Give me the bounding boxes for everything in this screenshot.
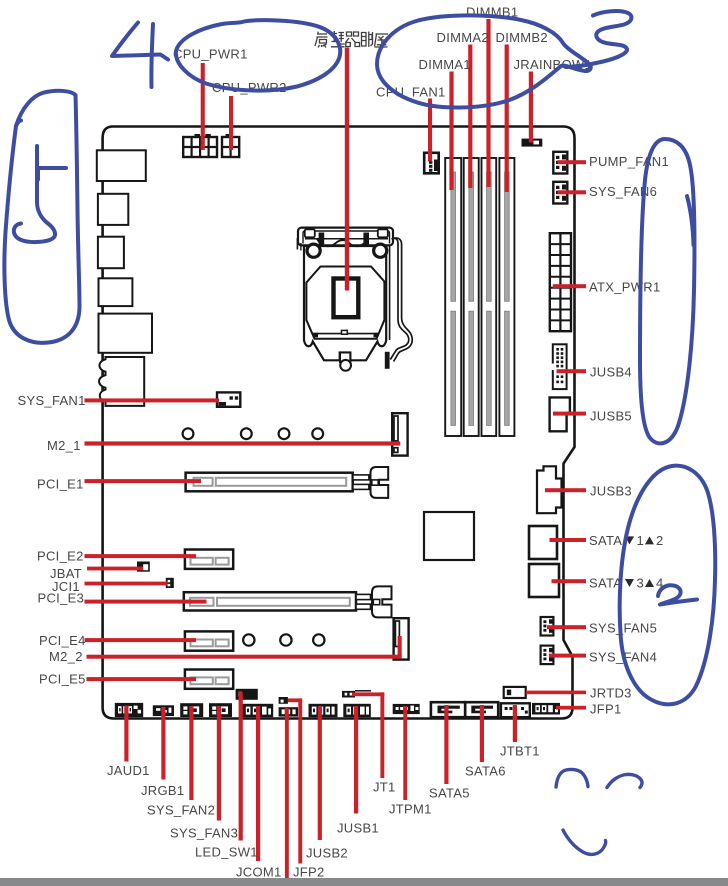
svg-text:SYS_FAN2: SYS_FAN2	[147, 802, 215, 817]
leader line JRAINBOW1	[529, 72, 533, 143]
svg-text:2: 2	[656, 533, 664, 548]
connector ATX_PWR1	[550, 233, 571, 331]
leader line JUSB5	[553, 412, 586, 416]
connector JFP2 tab	[279, 697, 288, 704]
DIMM slot 3	[482, 158, 497, 436]
label PCI_E4	[39, 633, 86, 648]
blue arc eye left	[556, 769, 588, 787]
leader line PCI_E5	[87, 677, 197, 681]
PCI_E3 slot	[184, 592, 356, 610]
svg-text:DIMMA2: DIMMA2	[437, 30, 489, 45]
leader line LED_SW1	[239, 692, 243, 841]
label SYS_FAN4	[589, 649, 657, 664]
leader line JCI1	[85, 582, 168, 586]
label SATA 1 2	[589, 533, 664, 548]
connector JAUD1	[115, 703, 143, 717]
leader line JUSB4	[557, 369, 587, 373]
connector JUSB5	[550, 397, 570, 431]
svg-text:JRGB1: JRGB1	[141, 783, 184, 798]
svg-text:SATA: SATA	[589, 576, 622, 591]
svg-text:JUSB1: JUSB1	[337, 820, 379, 835]
svg-text:SATA6: SATA6	[465, 763, 506, 778]
leader line CPU_PWR2	[229, 96, 233, 150]
blue blob left inner stroke	[14, 146, 55, 242]
leader line PUMP_FAN1	[558, 160, 587, 164]
label JUSB4	[590, 365, 632, 380]
PCI_E2 slot	[185, 550, 233, 569]
svg-text:SYS_FAN1: SYS_FAN1	[18, 393, 86, 408]
DIMM slot 4	[499, 158, 514, 436]
leader line CPU_PWR1	[201, 63, 205, 150]
io port 3	[98, 237, 124, 269]
connector JBAT	[137, 562, 150, 572]
leader line JUSB2	[318, 706, 322, 840]
svg-text:PCI_E5: PCI_E5	[39, 671, 86, 686]
connector SATA6	[465, 702, 498, 717]
svg-text:JAUD1: JAUD1	[107, 763, 150, 778]
connector SYS_FAN3	[209, 703, 232, 717]
label PCI_E1	[37, 476, 84, 491]
svg-text:JFP2: JFP2	[293, 864, 325, 879]
blue tall ellipse right lower	[620, 466, 716, 705]
leader line ATX_PWR1	[553, 284, 586, 288]
leader line PCI_E3	[85, 600, 207, 604]
leader line JAUD1	[124, 706, 128, 762]
label JAUD1	[107, 763, 150, 778]
blue tall ellipse right upper	[640, 139, 695, 443]
label SYS_FAN1	[18, 393, 86, 408]
label SYS_FAN5	[589, 621, 657, 636]
label JRTD3	[590, 686, 632, 701]
blue smile arc	[563, 830, 606, 854]
svg-text:3: 3	[637, 576, 645, 591]
PCI_E5 slot	[185, 670, 233, 689]
io port 1	[97, 150, 146, 181]
label DIMMB1	[466, 5, 518, 20]
svg-text:JRTD3: JRTD3	[590, 686, 632, 701]
label CPU_PWR2	[212, 80, 287, 95]
label SATA 3 4	[589, 576, 664, 591]
PCI_E3 latch	[356, 586, 392, 617]
svg-text:JUSB4: JUSB4	[590, 365, 632, 380]
connector SYS_FAN4	[541, 646, 554, 665]
label SATA6	[465, 763, 506, 778]
io port 4	[99, 278, 133, 306]
svg-text:PCI_E1: PCI_E1	[37, 476, 84, 491]
connector JFP2	[279, 707, 298, 716]
label PUMP_FAN1	[589, 154, 669, 169]
leader line JCOM1	[256, 706, 260, 861]
blue blob left outer	[4, 91, 79, 343]
label JUSB5	[590, 409, 632, 424]
leader line JT1 elbow	[352, 692, 384, 696]
label JRGB1	[141, 783, 184, 798]
mounting holes row 2	[243, 634, 324, 645]
svg-text:JFP1: JFP1	[590, 701, 622, 716]
label CPU socket (CJK)	[315, 31, 388, 48]
leader line JUSB3	[545, 488, 586, 492]
CPU socket screw circles	[307, 244, 387, 257]
connector JRGB1	[153, 705, 174, 716]
leader line M2_1	[85, 441, 401, 445]
connector JUSB2	[309, 704, 338, 717]
label PCI_E5	[39, 671, 86, 686]
leader line JBAT	[87, 567, 143, 571]
svg-text:M2_2: M2_2	[49, 649, 83, 664]
leader line SATA6	[480, 705, 484, 762]
leader line DIMMB1	[486, 19, 490, 187]
svg-text:JUSB5: JUSB5	[590, 409, 632, 424]
connector SYS_FAN2	[180, 703, 203, 717]
svg-text:SYS_FAN6: SYS_FAN6	[589, 184, 657, 199]
label SYS_FAN2	[147, 802, 215, 817]
blue squiggle top right	[572, 11, 631, 66]
io port 5	[99, 314, 153, 353]
svg-text:1: 1	[637, 533, 645, 548]
bottom gray bar	[0, 878, 728, 886]
connector SYS_FAN5	[541, 617, 554, 636]
PCI_E1 slot	[186, 473, 353, 492]
svg-text:PCI_E3: PCI_E3	[38, 591, 85, 606]
CPU socket top bracket	[297, 228, 393, 251]
chipset square	[424, 512, 474, 560]
svg-text:JCOM1: JCOM1	[236, 864, 282, 879]
connector JRAINBOW1	[522, 139, 543, 147]
blue arc eye right	[607, 774, 642, 787]
leader line PCI_E2	[85, 554, 197, 558]
CPU socket inner frame	[306, 267, 384, 339]
board outline	[103, 127, 575, 719]
M2_1 slot connector	[392, 413, 407, 455]
leader line PCI_E1	[85, 479, 202, 483]
label JFP1	[590, 701, 622, 716]
svg-text:PCI_E4: PCI_E4	[39, 633, 86, 648]
connector SATA 3 4	[529, 564, 559, 597]
svg-text:JUSB3: JUSB3	[590, 484, 632, 499]
svg-text:JT1: JT1	[373, 779, 396, 794]
leader line JFP1	[556, 706, 586, 710]
label JFP2	[293, 864, 325, 879]
DIMM slot 2	[464, 158, 479, 436]
svg-text:JTBT1: JTBT1	[500, 743, 540, 758]
label JUSB2	[306, 845, 348, 860]
blue ellipse around DIMM labels	[377, 15, 591, 107]
svg-text:SATA: SATA	[589, 533, 622, 548]
svg-text:SYS_FAN3: SYS_FAN3	[170, 825, 238, 840]
blue scribble digit 4 top-left	[112, 23, 168, 60]
connector SATA5	[431, 702, 465, 717]
PCI_E4 slot	[185, 631, 233, 650]
label SYS_FAN3	[170, 825, 238, 840]
DIMM slot 1	[445, 158, 461, 436]
label CPU_FAN1	[376, 84, 446, 99]
leader line JFP2 elbow	[288, 698, 302, 702]
svg-text:JUSB2: JUSB2	[306, 845, 348, 860]
leader line M2_2 with elbow	[87, 655, 402, 659]
connector SATA 1 2	[529, 526, 557, 559]
leader line DIMMA1	[449, 72, 453, 191]
connector JUSB4	[551, 344, 566, 389]
label JTBT1	[500, 743, 540, 758]
connector PUMP_FAN1	[553, 152, 567, 174]
CPU socket lever	[385, 238, 412, 369]
label PCI_E2	[37, 548, 84, 563]
label DIMMA1	[419, 57, 471, 72]
label JCOM1	[236, 864, 282, 879]
label M2_1	[47, 438, 81, 453]
leader line SYS_FAN5	[547, 625, 586, 629]
connector LED_SW1	[236, 689, 258, 700]
mounting holes row 1	[183, 428, 324, 439]
io port 6 audio jacks	[99, 357, 144, 406]
leader line SYS_FAN2	[189, 706, 193, 800]
label ATX_PWR1	[589, 280, 661, 295]
label JRAINBOW1	[514, 57, 593, 72]
label JT1	[373, 779, 396, 794]
leader line SATA 1 2	[550, 538, 587, 542]
svg-text:LED_SW1: LED_SW1	[195, 844, 258, 859]
svg-text:M2_1: M2_1	[47, 438, 81, 453]
label JTPM1	[389, 801, 432, 816]
connector JT1	[342, 691, 371, 698]
leader line DIMMA2	[468, 45, 472, 189]
svg-text:SYS_FAN5: SYS_FAN5	[589, 621, 657, 636]
CPU socket body	[304, 246, 390, 360]
blue ellipse around CPU_PWR1	[176, 20, 340, 90]
leader line CPU_FAN1	[428, 99, 432, 162]
connector JCOM1	[242, 704, 273, 717]
PCI_E1 latch	[353, 467, 388, 498]
connector JCI1	[166, 578, 174, 588]
connector JUSB3	[537, 466, 562, 513]
label LED_SW1	[195, 844, 258, 859]
long line below JFP2 connector	[285, 708, 289, 878]
svg-text:DIMMB2: DIMMB2	[496, 30, 548, 45]
leader line SATA 3 4	[552, 579, 587, 583]
leader line CPU socket	[345, 48, 349, 291]
label M2_2	[49, 649, 83, 664]
leader line JTBT1	[513, 705, 517, 742]
leader line SYS_FAN4	[549, 654, 586, 658]
svg-text:SATA5: SATA5	[429, 785, 470, 800]
connector JFP1	[532, 703, 560, 715]
connector JTPM1	[393, 704, 420, 714]
label JCI1	[52, 579, 80, 594]
svg-text:CPU_PWR1: CPU_PWR1	[173, 47, 248, 62]
leader line SYS_FAN3	[217, 706, 221, 821]
label SATA5	[429, 785, 470, 800]
svg-text:PCI_E2: PCI_E2	[37, 548, 84, 563]
io port 2	[98, 194, 128, 225]
svg-text:PUMP_FAN1: PUMP_FAN1	[589, 154, 669, 169]
label SYS_FAN6	[589, 184, 657, 199]
label DIMMA2	[437, 30, 489, 45]
svg-text:DIMMA1: DIMMA1	[419, 57, 471, 72]
label CPU_PWR1	[173, 47, 248, 62]
connector CPU_PWR1	[183, 134, 217, 157]
connector CPU_PWR2	[222, 134, 239, 157]
leader line JTPM1	[403, 706, 407, 800]
blue squiggle 2 over SATA34	[658, 585, 697, 604]
connector CPU_FAN1	[424, 153, 439, 174]
svg-text:JTPM1: JTPM1	[389, 801, 432, 816]
leader line JUSB1	[354, 706, 358, 814]
leader line SYS_FAN6	[558, 190, 587, 194]
M2_2 slot connector	[394, 618, 409, 659]
label JBAT	[50, 566, 82, 581]
leader line SYS_FAN1	[85, 398, 220, 402]
leader line SATA5	[444, 705, 448, 784]
label DIMMB2	[496, 30, 548, 45]
svg-text:ATX_PWR1: ATX_PWR1	[589, 280, 661, 295]
label PCI_E3	[38, 591, 85, 606]
leader line JRTD3	[526, 691, 586, 695]
connector JTBT1	[501, 703, 530, 717]
connector JRTD3	[504, 687, 526, 698]
leader line PCI_E4	[85, 638, 197, 642]
leader line DIMMB2	[505, 45, 509, 193]
CPU socket bottom tab	[340, 353, 351, 371]
label JUSB3	[590, 484, 632, 499]
label JUSB1	[337, 820, 379, 835]
connector JUSB1	[343, 704, 371, 717]
leader line JRGB1	[161, 707, 165, 780]
connector SYS_FAN6	[553, 182, 567, 204]
connector SYS_FAN1	[217, 392, 240, 406]
CPU window	[334, 279, 359, 318]
